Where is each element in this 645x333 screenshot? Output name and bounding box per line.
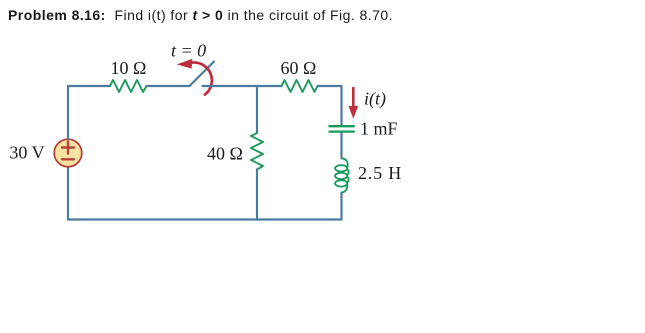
wire inductor to bottom-right corner (340, 193, 342, 220)
wire resistor to switch (147, 85, 190, 87)
capacitor C 1mF plates (330, 125, 354, 127)
svg-text:30 V: 30 V (9, 143, 44, 163)
inductor L 2.5H coil (335, 158, 349, 192)
svg-text:40 Ω: 40 Ω (207, 144, 243, 164)
svg-text:2.5 H: 2.5 H (358, 163, 402, 183)
wire bottom (68, 218, 342, 220)
wire capacitor to inductor (340, 133, 342, 159)
wire middle branch top (256, 86, 258, 133)
title text (8, 7, 393, 23)
svg-text:10 Ω: 10 Ω (111, 58, 147, 78)
wire 60ohm to top-right corner (318, 86, 342, 125)
wire switch to middle node (203, 85, 282, 87)
wire left vertical lower (67, 167, 69, 220)
wire middle branch bottom (256, 170, 258, 220)
svg-text:1 mF: 1 mF (360, 119, 398, 139)
switch blade (190, 62, 215, 87)
svg-text:i(t): i(t) (364, 89, 386, 110)
svg-text:t = 0: t = 0 (171, 41, 206, 61)
resistor R 40ohm vertical (251, 133, 263, 170)
resistor R 10ohm (110, 80, 147, 92)
current arrow i(t) (352, 88, 355, 108)
wire top-left segment (68, 85, 110, 87)
voltage source VS 30V (54, 139, 82, 167)
svg-text:60 Ω: 60 Ω (281, 58, 317, 78)
switch arc red arrow (193, 62, 212, 94)
wire left vertical upper (67, 86, 69, 139)
resistor R 60ohm (282, 80, 318, 92)
